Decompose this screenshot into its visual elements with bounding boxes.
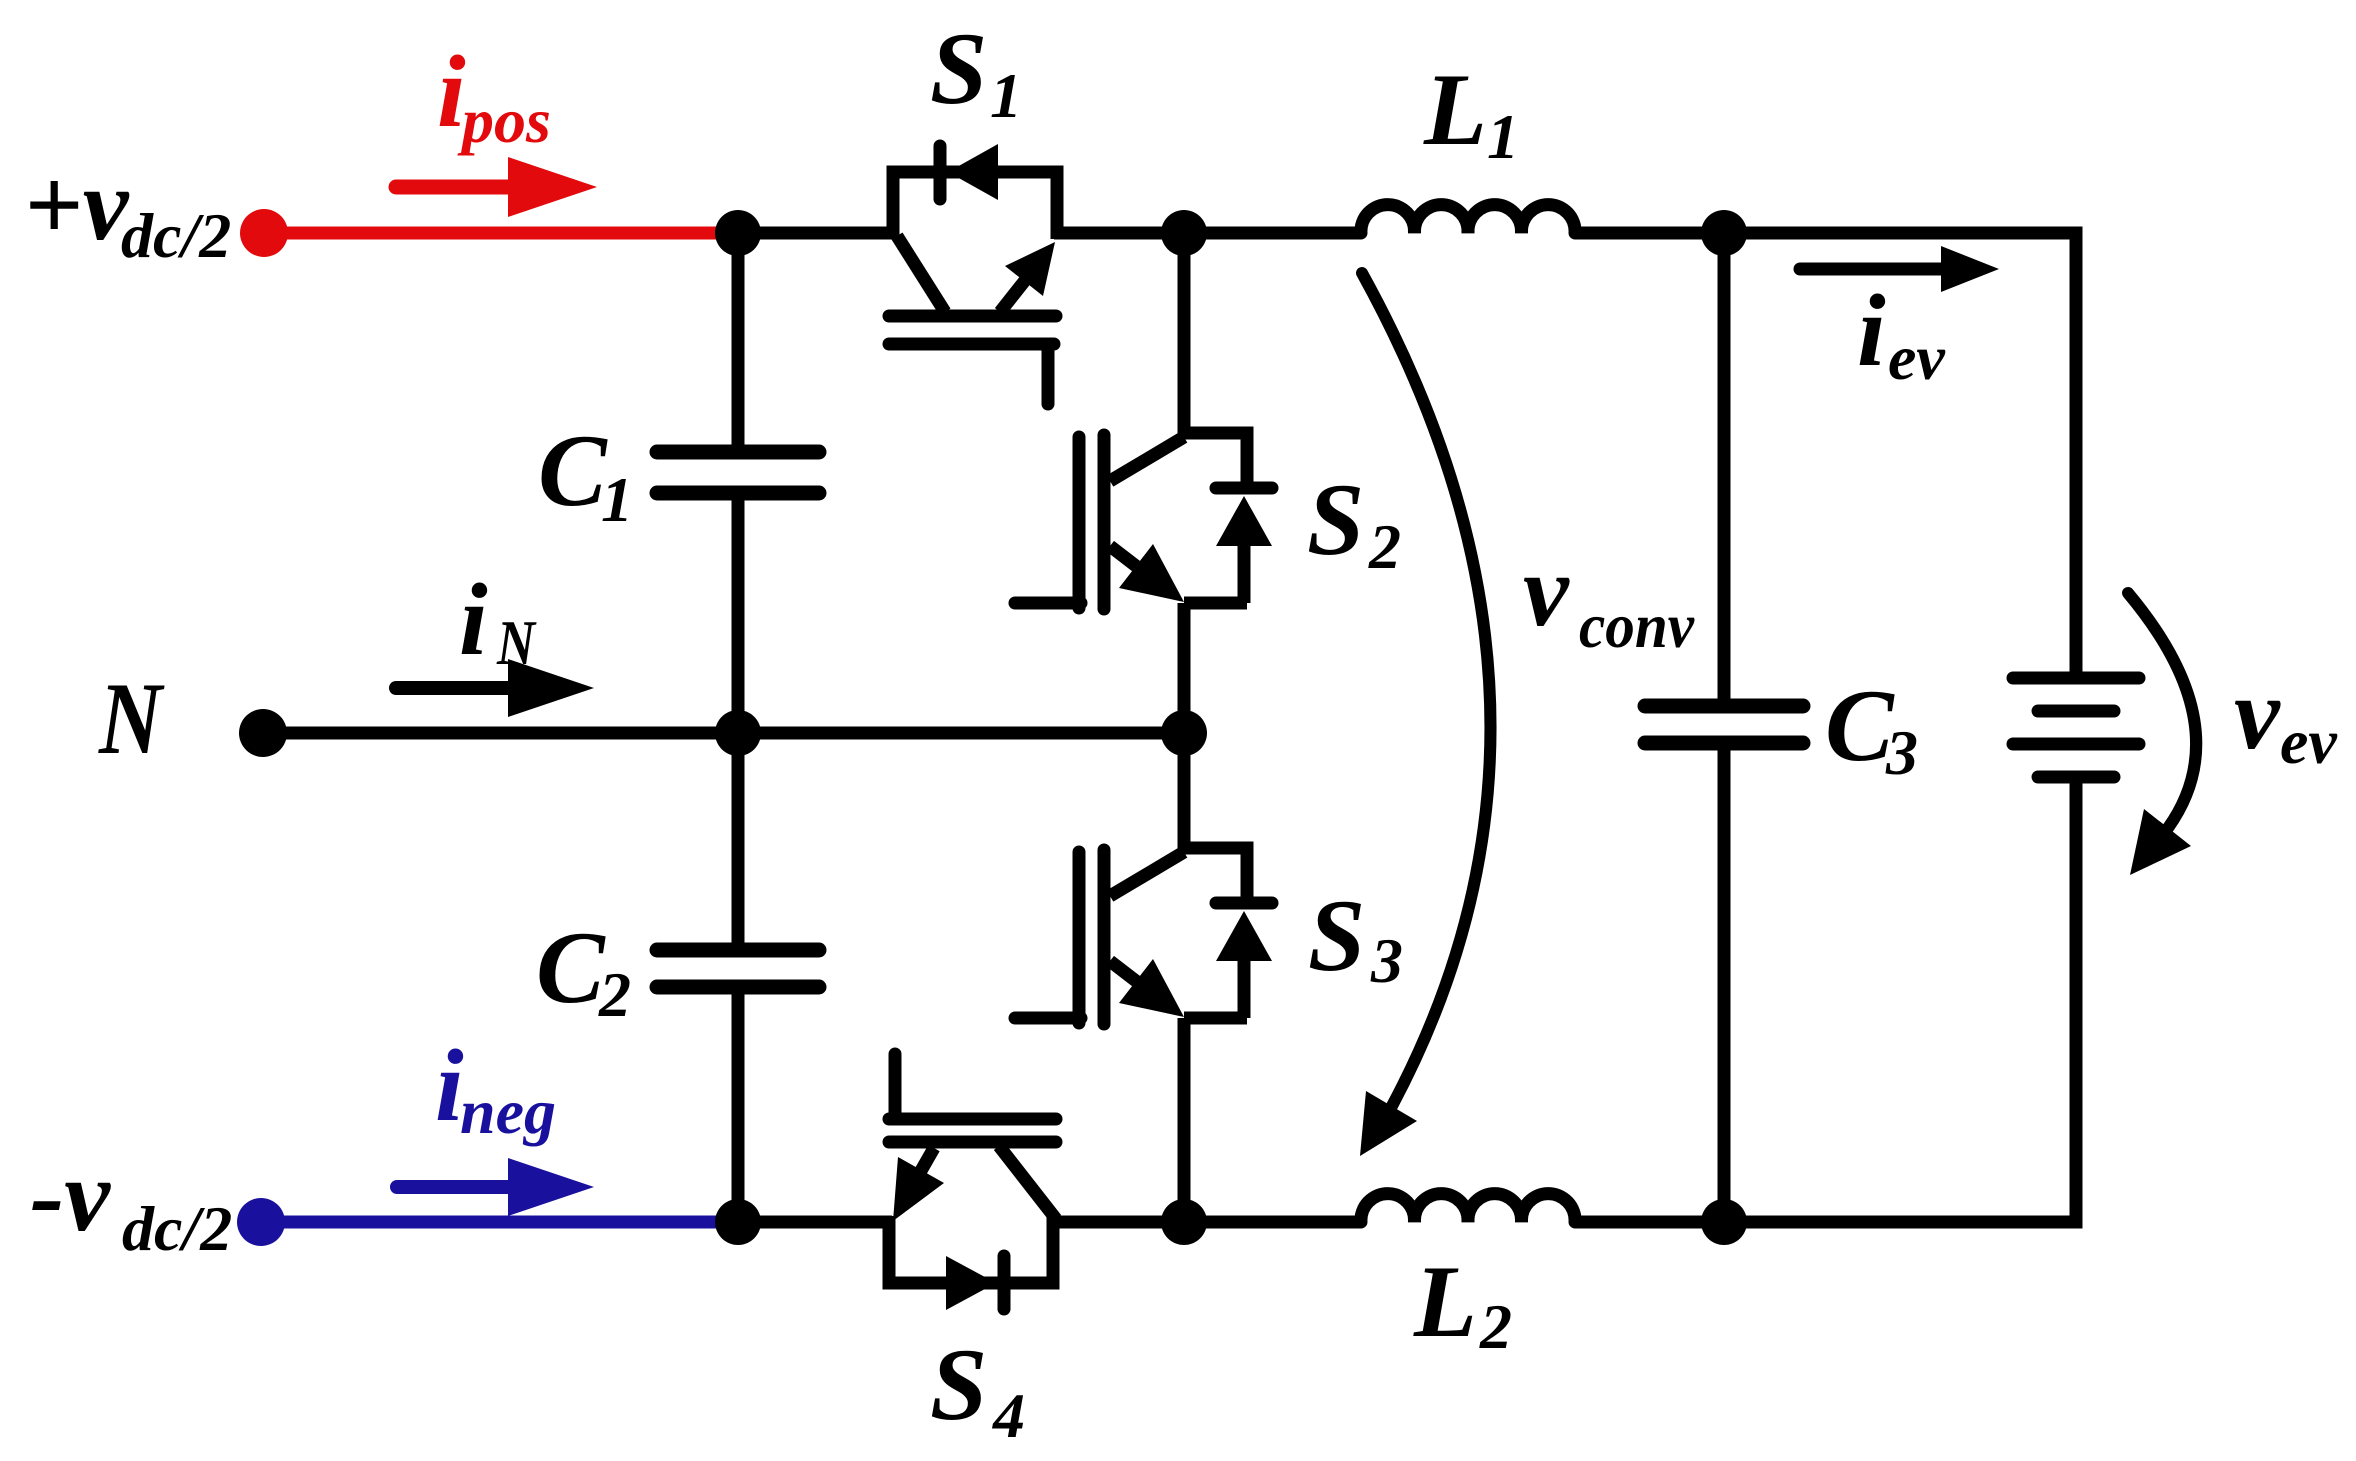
svg-text:N: N: [98, 662, 165, 776]
svg-text:2: 2: [1368, 511, 1401, 582]
transistor S4 gate bar: [889, 1113, 1056, 1126]
label v_ev: [2234, 657, 2337, 777]
svg-text:ev: ev: [2280, 706, 2337, 777]
wire positive dc input (red): [264, 227, 740, 240]
junction bottom C3: [1701, 1199, 1747, 1245]
svg-text:ev: ev: [1888, 322, 1945, 393]
transistor S4 body bar: [889, 1136, 1056, 1149]
label S2: [1307, 463, 1401, 582]
label i_ev: [1857, 274, 1945, 393]
junction top-left: [715, 210, 761, 256]
wire top rail right segment and right rail upper: [1575, 233, 2076, 678]
diode D2 cathode bar: [1216, 482, 1272, 495]
svg-text:S: S: [1307, 463, 1364, 577]
transistor S2 gate bar: [1073, 437, 1086, 608]
battery EV plates: [2013, 678, 2139, 777]
transistor S2 collector lead: [1110, 437, 1184, 481]
diode D3 anode wire: [1238, 961, 1251, 1018]
svg-text:L: L: [1413, 1245, 1477, 1359]
transistor S2 emitter lead with arrow: [1110, 544, 1184, 602]
svg-text:N: N: [496, 607, 537, 678]
junction N switch branch: [1161, 710, 1207, 756]
junction top C3: [1701, 210, 1747, 256]
svg-text:neg: neg: [460, 1076, 556, 1147]
node +vdc/2 terminal dot: [240, 209, 288, 257]
label L1: [1423, 53, 1519, 172]
current arrow i_neg: [397, 1158, 594, 1216]
svg-text:S: S: [1308, 879, 1365, 993]
svg-text:2: 2: [1479, 1291, 1512, 1362]
node +vdc/2 label: [24, 148, 231, 271]
diode D2 anode wire: [1238, 546, 1251, 603]
capacitor C2: [657, 950, 819, 987]
label i_N: [459, 563, 537, 678]
label v_conv: [1523, 534, 1695, 661]
svg-text:i: i: [1857, 274, 1886, 388]
transistor S1 body bar: [889, 310, 1056, 323]
transistor S4 emitter lead with arrow: [893, 1148, 944, 1221]
label -vdc/2: [30, 1139, 232, 1264]
label L2: [1413, 1245, 1512, 1362]
wire S2 collector: [1178, 233, 1191, 439]
svg-text:C: C: [538, 414, 608, 528]
transistor S3 gate lead: [1015, 1012, 1081, 1025]
wire right rail lower: [1724, 777, 2076, 1222]
switch S3 collector corner: [1184, 848, 1247, 897]
transistor S4 gate stub: [889, 1054, 902, 1119]
svg-text:3: 3: [1370, 925, 1403, 996]
svg-text:S: S: [930, 12, 987, 126]
label i_neg: [435, 1029, 556, 1147]
wire neutral rail: [263, 727, 1184, 740]
capacitor C1: [657, 452, 819, 493]
label S3: [1308, 879, 1403, 996]
current arrow i_ev: [1800, 246, 1999, 292]
transistor S2 body bar: [1098, 435, 1111, 609]
junction top-middle: [1161, 210, 1207, 256]
transistor S2 gate lead: [1015, 597, 1081, 610]
svg-text:-v: -v: [30, 1139, 111, 1253]
junction bottom-left: [715, 1199, 761, 1245]
svg-text:dc/2: dc/2: [122, 1193, 232, 1264]
wire S3 emitter line: [1184, 1012, 1247, 1025]
switch S2 collector corner: [1184, 433, 1247, 482]
svg-text:C: C: [536, 911, 606, 1025]
svg-text:S: S: [930, 1328, 987, 1442]
svg-text:conv: conv: [1579, 590, 1695, 661]
voltage arrow v_conv: [1360, 273, 1490, 1156]
label S4: [930, 1328, 1025, 1451]
svg-text:+v: +v: [24, 148, 130, 262]
label C1: [538, 414, 633, 535]
junction N left rail: [715, 710, 761, 756]
svg-text:pos: pos: [457, 85, 551, 156]
svg-text:2: 2: [598, 959, 631, 1030]
transistor S4 collector lead: [999, 1146, 1056, 1219]
voltage arrow v_ev: [2128, 593, 2196, 875]
wire S3 emitter to bottom junction: [1178, 1018, 1191, 1222]
diode D1 cathode bar: [934, 146, 947, 199]
diode D1 triangle: [948, 144, 998, 200]
inductor L1: [1361, 205, 1575, 233]
wire top rail middle segment: [1054, 227, 1361, 240]
transistor S3 collector lead: [1110, 852, 1184, 896]
diode D3 cathode bar: [1216, 897, 1272, 910]
svg-text:4: 4: [992, 1380, 1025, 1451]
svg-text:1: 1: [990, 60, 1022, 131]
wire S2 emitter to N junction: [1178, 603, 1191, 854]
svg-text:1: 1: [1487, 101, 1519, 172]
switch S1 body frame: [893, 172, 1057, 239]
wire negative dc input (blue): [261, 1216, 738, 1229]
svg-text:dc/2: dc/2: [121, 200, 231, 271]
wire bottom rail segment right of L2: [1575, 1216, 1724, 1229]
transistor S1 collector lead: [897, 236, 945, 312]
transistor S3 emitter lead with arrow: [1110, 959, 1184, 1017]
transistor S3 gate bar: [1073, 852, 1086, 1023]
current arrow i_N: [396, 659, 594, 717]
diode D4 cathode bar: [998, 1256, 1011, 1309]
wire bottom rail middle: [1056, 1216, 1361, 1229]
svg-text:L: L: [1423, 53, 1487, 167]
diode D2 triangle: [1216, 496, 1272, 546]
transistor S1 gate stub: [1042, 344, 1055, 404]
transistor S3 body bar: [1098, 850, 1111, 1024]
svg-text:v: v: [2234, 657, 2281, 771]
label i_pos: [437, 35, 551, 156]
node N terminal dot: [239, 709, 287, 757]
switch S4 body frame: [889, 1216, 1053, 1283]
svg-text:3: 3: [1885, 717, 1918, 788]
wire top rail left segment: [740, 227, 896, 240]
diode D3 triangle: [1216, 911, 1272, 961]
label C2: [536, 911, 631, 1030]
transistor S1 emitter lead with arrow: [1000, 242, 1055, 312]
transistor S1 gate bar: [889, 338, 1054, 351]
inductor L2: [1361, 1194, 1575, 1222]
wire C3 branch: [1718, 233, 1731, 1222]
current arrow i_pos: [396, 157, 597, 217]
svg-text:1: 1: [601, 464, 633, 535]
wire bottom rail left segment: [738, 1216, 892, 1229]
svg-text:v: v: [1523, 534, 1570, 648]
junction bottom-middle: [1161, 1199, 1207, 1245]
svg-text:i: i: [459, 563, 488, 677]
capacitor C3: [1645, 706, 1803, 743]
node -vdc/2 terminal dot: [237, 1198, 285, 1246]
wire left rail: [732, 233, 745, 1222]
label C3: [1825, 669, 1918, 788]
wire S2 emitter line: [1184, 597, 1247, 610]
svg-text:C: C: [1825, 669, 1895, 783]
diode D4 triangle: [946, 1256, 996, 1310]
label S1: [930, 12, 1022, 131]
